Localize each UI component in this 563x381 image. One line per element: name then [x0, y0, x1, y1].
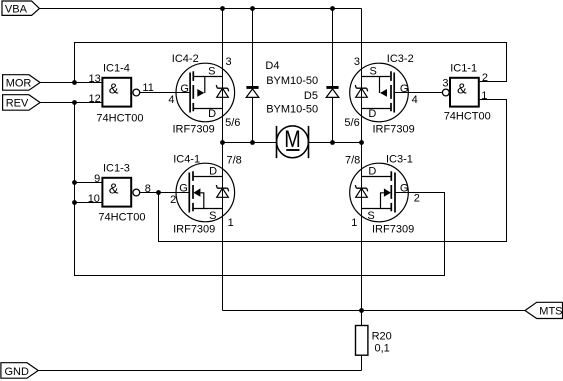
- svg-text:VBA: VBA: [5, 4, 28, 16]
- svg-text:1: 1: [351, 217, 357, 229]
- svg-text:IC1-1: IC1-1: [450, 63, 477, 75]
- svg-text:7/8: 7/8: [345, 154, 360, 166]
- transistor IC4-2 P-MOSFET IRF7309: [168, 53, 240, 135]
- wire motor left: [223, 142, 277, 144]
- wire REV column to IC3-1 gate: [75, 103, 445, 276]
- svg-text:MTS: MTS: [539, 306, 562, 318]
- port MTS: [525, 302, 563, 318]
- svg-text:&: &: [457, 82, 467, 98]
- svg-text:D4: D4: [265, 60, 279, 72]
- wire right bridge column: [361, 9, 363, 371]
- body diode of IC3-2: [355, 85, 367, 97]
- svg-text:IC3-2: IC3-2: [387, 53, 414, 65]
- port VBA: [2, 1, 39, 16]
- svg-text:3: 3: [226, 56, 232, 68]
- svg-text:D: D: [368, 108, 376, 120]
- svg-text:2: 2: [170, 194, 176, 206]
- svg-text:G: G: [179, 182, 188, 194]
- port REV: [3, 95, 41, 111]
- svg-text:4: 4: [412, 94, 418, 106]
- wire MOR input: [40, 82, 102, 84]
- svg-text:D5: D5: [304, 90, 318, 102]
- svg-text:9: 9: [94, 173, 100, 185]
- svg-text:REV: REV: [6, 98, 29, 110]
- transistor IC3-1 N-MOSFET IRF7309 (mirrored): [345, 153, 420, 235]
- svg-text:0,1: 0,1: [375, 343, 390, 355]
- wire IC1-3 pin 9: [75, 182, 103, 184]
- svg-text:IC1-3: IC1-3: [103, 163, 130, 175]
- svg-text:8: 8: [145, 183, 151, 195]
- wire IC1-3 output to IC4-1 gate: [140, 192, 176, 194]
- svg-text:IC1-4: IC1-4: [103, 63, 130, 75]
- wire D4 branch: [252, 9, 254, 143]
- svg-text:3: 3: [442, 78, 448, 90]
- svg-text:IC3-1: IC3-1: [386, 153, 413, 165]
- wire MOR feedback to IC1-1 pin 2: [75, 43, 507, 83]
- svg-text:IRF7309: IRF7309: [173, 223, 215, 235]
- wire IC1-3 output loop to IC1-1 pin 1: [159, 100, 507, 242]
- svg-text:R20: R20: [372, 330, 392, 342]
- wire motor right: [309, 142, 362, 144]
- svg-text:D: D: [208, 108, 216, 120]
- svg-text:M: M: [284, 126, 301, 153]
- svg-text:G: G: [400, 182, 409, 194]
- svg-text:D: D: [209, 165, 217, 177]
- svg-text:S: S: [208, 66, 215, 78]
- body diode of IC3-1: [355, 185, 367, 197]
- transistor IC3-2 P-MOSFET IRF7309 (mirrored): [344, 53, 417, 135]
- svg-text:IC4-1: IC4-1: [173, 153, 200, 165]
- svg-text:GND: GND: [5, 366, 30, 378]
- op-amp IC1-4 NAND gate 74HCT00: [89, 63, 154, 125]
- svg-text:1: 1: [228, 217, 234, 229]
- svg-text:MOR: MOR: [6, 78, 32, 90]
- svg-text:G: G: [180, 83, 189, 95]
- wire REV input: [40, 102, 102, 104]
- wire D5 branch: [332, 9, 334, 143]
- svg-text:13: 13: [89, 73, 101, 85]
- svg-text:10: 10: [88, 193, 100, 205]
- svg-text:IRF7309: IRF7309: [373, 123, 415, 135]
- op-amp IC1-3 NAND gate 74HCT00: [88, 163, 151, 224]
- motor M: [277, 126, 309, 158]
- svg-text:IC4-2: IC4-2: [172, 53, 199, 65]
- svg-text:BYM10-50: BYM10-50: [266, 103, 318, 115]
- svg-text:IRF7309: IRF7309: [173, 123, 215, 135]
- port MOR: [3, 75, 41, 91]
- svg-text:74HCT00: 74HCT00: [98, 212, 145, 224]
- svg-text:IRF7309: IRF7309: [372, 223, 414, 235]
- node junction dots: [72, 6, 364, 313]
- transistor IC4-1 N-MOSFET IRF7309: [170, 153, 242, 235]
- svg-text:12: 12: [89, 93, 101, 105]
- diode D4 BYM10-50: [246, 60, 318, 97]
- wire IC1-1 output to IC3-2 gate: [408, 92, 442, 94]
- svg-text:S: S: [367, 210, 374, 222]
- svg-text:&: &: [109, 82, 119, 98]
- diode D5 BYM10-50: [266, 86, 339, 115]
- svg-text:S: S: [209, 210, 216, 222]
- resistor R20: [356, 326, 392, 356]
- wire left bridge column: [222, 9, 224, 311]
- svg-text:&: &: [109, 182, 119, 198]
- wire IC1-3 pin 10: [75, 202, 103, 204]
- svg-text:4: 4: [168, 94, 174, 106]
- svg-text:5/6: 5/6: [225, 117, 240, 129]
- svg-text:74HCT00: 74HCT00: [444, 111, 491, 123]
- svg-text:3: 3: [354, 56, 360, 68]
- svg-text:74HCT00: 74HCT00: [96, 113, 143, 125]
- svg-text:D: D: [368, 165, 376, 177]
- body diode of IC4-2: [216, 85, 228, 97]
- svg-text:5/6: 5/6: [344, 117, 359, 129]
- wire GND rail: [38, 370, 361, 372]
- svg-text:2: 2: [414, 193, 420, 205]
- svg-text:11: 11: [142, 82, 153, 94]
- svg-text:BYM10-50: BYM10-50: [266, 75, 318, 87]
- op-amp IC1-1 NAND gate 74HCT00 (mirrored): [442, 63, 490, 123]
- wire IC1-4 output to IC4-2 gate: [140, 92, 176, 94]
- wire MTS rail: [223, 310, 526, 312]
- body diode of IC4-1: [216, 185, 228, 197]
- port GND: [1, 363, 38, 379]
- svg-text:7/8: 7/8: [227, 154, 242, 166]
- svg-text:1: 1: [481, 90, 487, 102]
- svg-text:2: 2: [482, 72, 488, 84]
- svg-text:S: S: [370, 66, 377, 78]
- wire top VBA rail: [39, 8, 361, 10]
- svg-text:G: G: [400, 83, 409, 95]
